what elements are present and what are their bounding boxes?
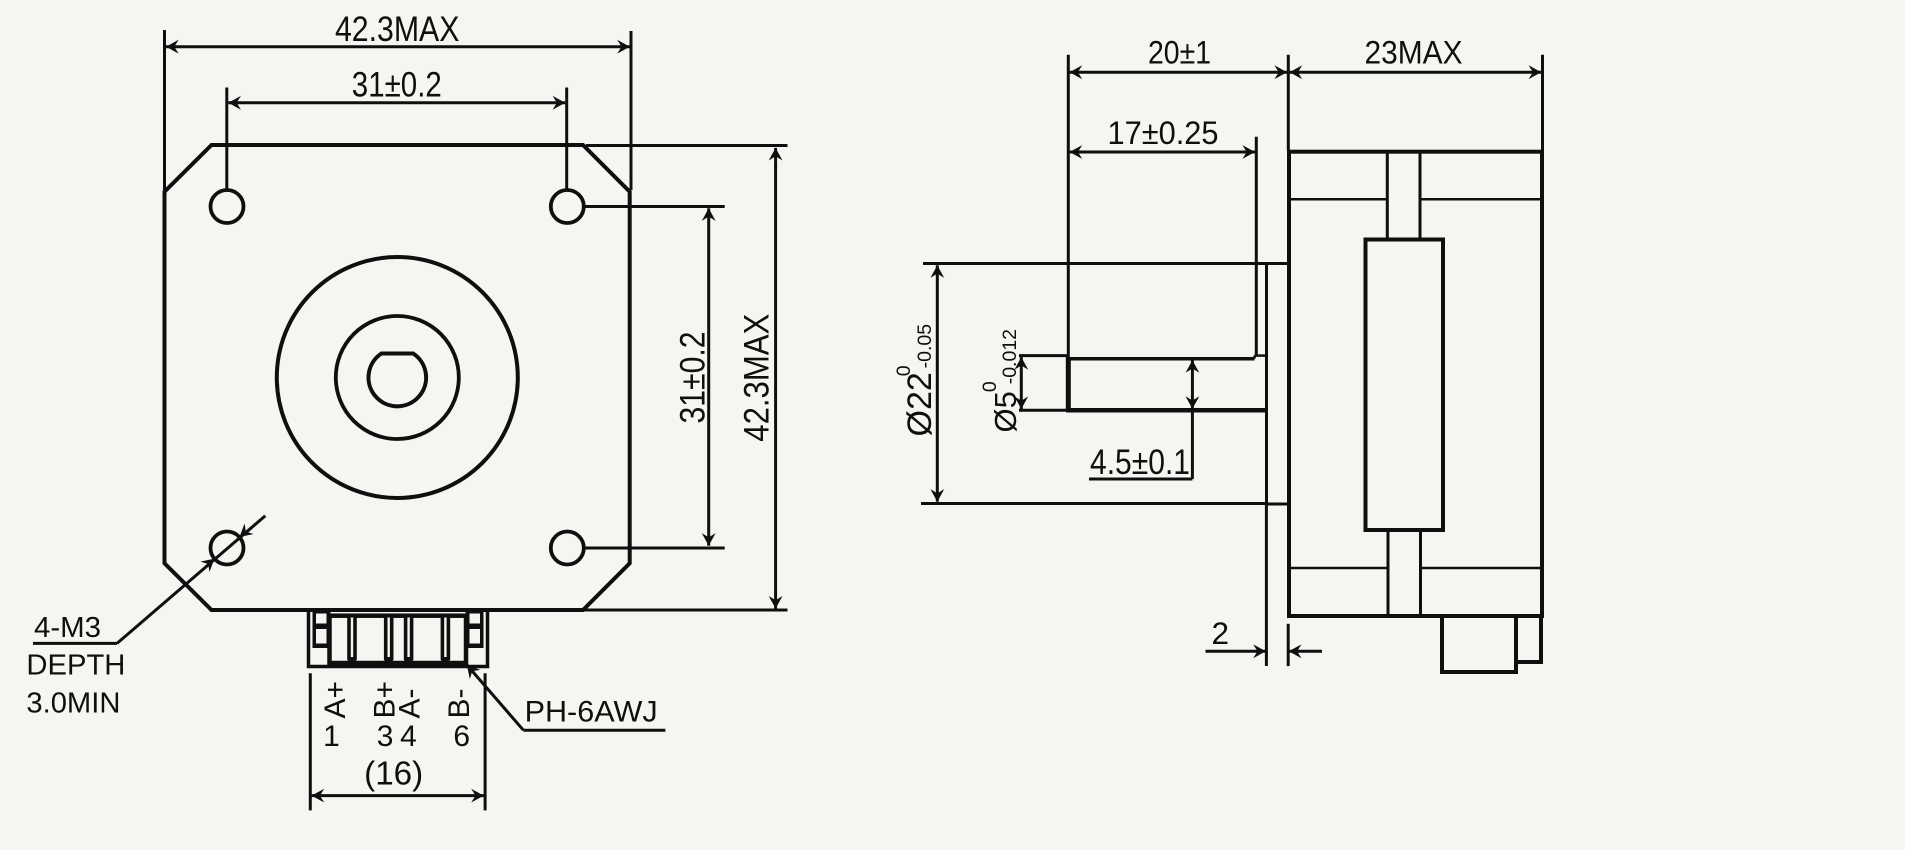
connector shroud box [330, 616, 467, 663]
dim Ø5: extension lines [1019, 354, 1068, 357]
pilot boss circle (Ø22) [277, 257, 518, 498]
dim 17±0.25: extension line [1255, 137, 1258, 355]
dim 2: dimension line segments [1206, 650, 1266, 653]
svg-text:31±0.2: 31±0.2 [674, 332, 713, 424]
svg-text:17±0.25: 17±0.25 [1108, 115, 1219, 151]
side view: shaft center column lower [1387, 530, 1390, 616]
mounting hole bottom-left [211, 532, 244, 565]
mounting hole top-right [551, 190, 584, 223]
side view: connector tab small [1516, 616, 1541, 662]
svg-text:23MAX: 23MAX [1365, 35, 1463, 71]
extension line from faceplate top edge [586, 144, 788, 147]
right-side extension lines from holes [583, 205, 724, 208]
pin 4 [404, 615, 414, 661]
svg-text:Ø220-0.05: Ø220-0.05 [893, 324, 939, 437]
dim 42.3MAX vertical: dimension line [774, 148, 777, 609]
side view: shaft outline [1066, 357, 1071, 410]
svg-text:B-: B- [443, 689, 476, 719]
mounting hole top-left [211, 190, 244, 223]
dim 42.3MAX top: dimension line [166, 45, 630, 48]
svg-text:4.5±0.1: 4.5±0.1 [1090, 443, 1190, 482]
svg-text:3: 3 [377, 720, 394, 753]
svg-text:A+: A+ [319, 681, 352, 719]
svg-text:PH-6AWJ: PH-6AWJ [525, 696, 658, 729]
svg-text:2: 2 [1212, 615, 1230, 651]
dim 23MAX: dimension line [1290, 71, 1542, 74]
svg-text:DEPTH: DEPTH [26, 650, 125, 682]
side view: bottom flange band line [1289, 567, 1387, 570]
svg-text:42.3MAX: 42.3MAX [335, 10, 460, 49]
motor front view: faceplate octagon outline [165, 145, 630, 610]
svg-text:42.3MAX: 42.3MAX [738, 314, 777, 442]
side view: top flange band line [1289, 198, 1387, 201]
svg-text:A-: A- [394, 689, 427, 719]
side view: rotor block [1366, 240, 1444, 531]
svg-text:4-M3: 4-M3 [34, 612, 101, 644]
connector housing outer box [309, 610, 488, 667]
side view: shaft center column upper [1386, 152, 1389, 240]
shaft circle with D-flat [369, 354, 427, 407]
svg-text:20±1: 20±1 [1148, 35, 1211, 71]
dim 20±1 / 23MAX: extension lines [1067, 55, 1070, 361]
dim 42.3MAX top: extension lines [163, 30, 166, 190]
pin 6 [441, 615, 451, 661]
extension line from faceplate bottom edge [583, 609, 788, 612]
leader 4-M3 underline [33, 642, 117, 645]
svg-text:3.0MIN: 3.0MIN [26, 688, 120, 720]
pin 3 [384, 615, 394, 661]
side view: connector tab large [1442, 616, 1516, 672]
svg-text:Ø50-0.012: Ø50-0.012 [979, 329, 1023, 433]
dim 2: extension lines [1265, 504, 1268, 666]
dim 4.5±0.1: arrow line [1191, 360, 1194, 409]
leader PH-6AWJ [467, 665, 524, 730]
side view: motor body outline [1289, 152, 1542, 616]
dim 31±0.2 top: extension lines [225, 88, 228, 190]
dim Ø5: dimension line [1020, 357, 1023, 409]
pin 1 [347, 615, 357, 661]
svg-text:4: 4 [400, 720, 417, 753]
dim 31±0.2 vertical: dimension line [707, 208, 710, 545]
svg-text:(16): (16) [364, 755, 423, 792]
dim 31±0.2 top: dimension line [228, 101, 565, 104]
dim 20±1: dimension line [1070, 71, 1287, 74]
dim 4.5±0.1: leader stem and underline [1191, 409, 1194, 479]
svg-text:31±0.2: 31±0.2 [352, 65, 442, 104]
mounting hole bottom-right [551, 532, 584, 565]
dim 17±0.25: dimension line [1070, 151, 1255, 154]
leader 4-M3 diagonal through bottom-left hole [117, 516, 265, 644]
dim (16): dimension line [312, 794, 484, 797]
connector left latch [313, 611, 331, 648]
dim Ø22: dimension line [936, 265, 939, 501]
svg-text:1: 1 [323, 720, 340, 753]
dim Ø22: extension lines [923, 262, 1267, 265]
dim (16): extension lines [309, 673, 312, 810]
side view: pilot boss plate [1267, 264, 1290, 505]
hub circle [336, 316, 459, 439]
connector right latch [466, 611, 484, 648]
svg-text:6: 6 [453, 720, 470, 753]
